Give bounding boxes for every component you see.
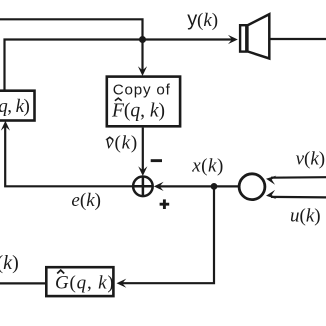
svg-text:(q, k): (q, k) (0, 96, 30, 117)
wire G box output (0, 282, 45, 284)
svg-text:u(k): u(k) (290, 205, 321, 226)
wire copy box to sum (142, 128, 144, 172)
label minus (151, 159, 162, 162)
wire node to mixer (214, 185, 239, 187)
svg-text:e(k): e(k) (71, 190, 101, 211)
wire u(k) arrow (271, 196, 326, 199)
mixer circle (239, 174, 265, 200)
svg-text:y: y (187, 9, 197, 31)
speaker (240, 25, 246, 51)
hat over F (115, 98, 122, 101)
wire top feedback line (0, 19, 143, 39)
summing junction (133, 177, 153, 197)
svg-text:(k): (k) (0, 252, 19, 274)
svg-text:G(q, k): G(q, k) (55, 273, 114, 294)
wire e(k) to left box (5, 127, 133, 187)
svg-text:x(k): x(k) (191, 156, 224, 177)
wire arrow into speaker (228, 35, 238, 44)
wire x(k) into sum (158, 185, 214, 187)
box G(q,k) (46, 267, 113, 296)
node junction (139, 36, 146, 43)
wire v(k) arrow (271, 176, 326, 179)
svg-text:(k): (k) (197, 10, 218, 31)
wire node down to G box (121, 186, 214, 283)
wire speaker output (271, 38, 326, 40)
node x(k) (211, 183, 218, 190)
svg-text:v(k): v(k) (105, 132, 138, 153)
box F(q,k) left (cut off) (0, 91, 35, 121)
svg-text:v(k): v(k) (296, 148, 326, 169)
svg-text:Copy of: Copy of (113, 82, 171, 99)
svg-text:F(q, k): F(q, k) (111, 101, 165, 122)
wire y(k) line (5, 40, 234, 91)
label plus (160, 199, 170, 209)
box Copy of F(q,k) (107, 77, 180, 127)
wire arrow down into copy box (141, 40, 143, 72)
